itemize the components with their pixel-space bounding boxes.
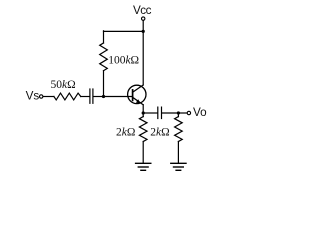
resistor R1 100k zigzag [100, 43, 108, 71]
svg-text:2kΩ: 2kΩ [150, 126, 169, 138]
wire capacitor C1 to base junction [94, 96, 104, 98]
capacitor C2 plate left [157, 107, 159, 118]
wire base junction to transistor Q1 base [104, 96, 133, 98]
wire collector to top junction [142, 31, 144, 85]
node base junction [102, 95, 105, 98]
svg-text:Vo: Vo [193, 106, 207, 119]
node Vcc terminal [142, 17, 145, 20]
transistor Q1 circle [128, 85, 146, 103]
node Vo terminal [187, 111, 190, 114]
svg-text:100kΩ: 100kΩ [108, 55, 139, 67]
ground left bar3 [141, 169, 146, 171]
node output junction [177, 111, 180, 114]
ground right bar1 [171, 162, 186, 164]
resistor R4 2k zigzag [175, 117, 183, 142]
wire Vcc terminal to top rail [142, 21, 144, 32]
wire top rail [104, 30, 144, 32]
transistor Q1 base bar [132, 90, 134, 101]
svg-text:Vs: Vs [26, 90, 40, 103]
wire emitter node to capacitor C2 [143, 112, 157, 114]
wire emitter node down to resistor R3 [142, 113, 144, 117]
capacitor C1 plate right [92, 89, 94, 103]
transistor Q1 emitter diagonal [133, 97, 144, 105]
wire emitter down to emitter node [142, 105, 144, 113]
ground right bar3 [176, 169, 181, 171]
capacitor C1 plate left [89, 89, 91, 103]
svg-text:Vcc: Vcc [133, 4, 152, 17]
resistor R2 50k zigzag [54, 93, 81, 100]
ground left bar1 [136, 162, 151, 164]
wire resistor R1 to base node [103, 71, 105, 97]
node emitter junction [142, 111, 145, 114]
wire output node to Vo terminal [178, 112, 187, 114]
wire resistor R3 to ground [142, 142, 144, 163]
wire capacitor C2 to output node [162, 112, 178, 114]
junction top rail [142, 30, 145, 33]
capacitor C2 plate right [161, 107, 163, 118]
ground left bar2 [138, 166, 148, 168]
ground right bar2 [174, 166, 184, 168]
wire resistor R2 to capacitor C1 [81, 96, 90, 98]
node Vs terminal [40, 95, 43, 98]
transistor Q1 collector diagonal [133, 85, 144, 92]
wire Vs terminal to resistor R2 [43, 96, 54, 98]
resistor R3 2k zigzag [139, 117, 147, 142]
wire resistor R4 to ground [177, 142, 179, 163]
svg-text:50kΩ: 50kΩ [51, 79, 76, 91]
transistor Q1 emitter arrowhead [136, 99, 141, 103]
wire top rail down to resistor R1 [103, 31, 105, 43]
wire output node down to resistor R4 [177, 113, 179, 117]
svg-text:2kΩ: 2kΩ [116, 126, 135, 138]
